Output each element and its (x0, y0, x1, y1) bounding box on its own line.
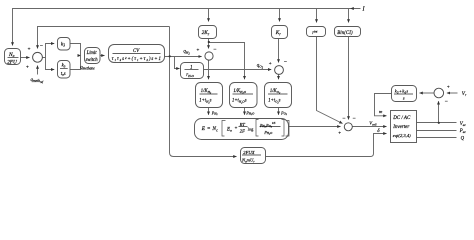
svg-text:Eo: Eo (226, 127, 232, 132)
svg-text:k3: k3 (62, 64, 66, 69)
svg-text:qO2: qO2 (257, 64, 264, 70)
svg-text:Vr: Vr (462, 92, 467, 97)
svg-text:+: + (338, 132, 341, 137)
svg-text:−: − (213, 47, 216, 53)
svg-text:pH2: pH2 (211, 109, 218, 116)
svg-text:pH2O: pH2O (246, 109, 256, 116)
svg-text:t3s: t3s (61, 72, 66, 77)
svg-text:I: I (362, 7, 366, 13)
svg-text:switch: switch (86, 58, 99, 63)
svg-text:qmethane: qmethane (80, 65, 95, 70)
svg-text:2FUX: 2FUX (243, 150, 254, 155)
svg-text:τ1τ2s2+(τ1+τ2)s+1: τ1τ2s2+(τ1+τ2)s+1 (112, 56, 162, 62)
svg-text:+: + (447, 86, 450, 91)
svg-text:m: m (379, 109, 383, 114)
svg-text:2F: 2F (240, 129, 245, 134)
svg-text:rH-O: rH-O (186, 73, 194, 78)
svg-text:pO2: pO2 (280, 109, 287, 116)
svg-text:Bln(CI): Bln(CI) (337, 31, 353, 36)
svg-text:Pac: Pac (459, 129, 467, 134)
svg-text:+: + (26, 65, 29, 70)
svg-text:1+tO2s: 1+tO2s (268, 99, 280, 105)
svg-text:log: log (248, 126, 255, 131)
svg-text:+: + (235, 127, 238, 132)
svg-text:2FU: 2FU (7, 59, 18, 65)
svg-text:1/KH2O: 1/KH2O (233, 89, 246, 95)
svg-text:DC / AC: DC / AC (392, 116, 411, 121)
svg-text:s: s (403, 95, 405, 100)
svg-text:E = Nc: E = Nc (201, 126, 218, 132)
svg-text:1+tH2Os: 1+tH2Os (232, 99, 247, 105)
svg-text:Limit: Limit (86, 51, 98, 56)
svg-text:CV: CV (133, 49, 140, 54)
svg-text:−: − (353, 116, 356, 122)
svg-text:Q: Q (461, 137, 465, 142)
svg-text:qH2: qH2 (183, 50, 190, 56)
svg-text:1+tH2s: 1+tH2s (199, 99, 211, 105)
svg-text:1: 1 (190, 66, 192, 71)
svg-text:Vac: Vac (460, 122, 467, 127)
svg-text:+: + (269, 62, 272, 67)
svg-text:Vcell: Vcell (369, 121, 376, 127)
svg-text:−: − (40, 43, 43, 49)
svg-text:−: − (445, 99, 448, 105)
svg-text:qmethref: qmethref (31, 78, 45, 84)
svg-text:−: − (342, 116, 345, 122)
svg-text:−: − (284, 60, 287, 66)
svg-text:RT: RT (239, 122, 246, 127)
svg-text:Inverter: Inverter (392, 125, 409, 130)
svg-text:+: + (197, 48, 200, 53)
svg-text:+: + (28, 47, 31, 52)
